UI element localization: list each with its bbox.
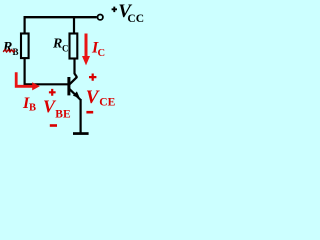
resistor R_B (21, 34, 29, 59)
emitter lead (69, 89, 81, 100)
label +VCC (112, 1, 144, 25)
ground bar (73, 132, 89, 135)
svg-text:R: R (52, 37, 62, 52)
minus sign of V_BE (50, 124, 57, 127)
plus sign of V_BE (49, 89, 56, 96)
wire top rail (24, 16, 97, 18)
svg-text:CC: CC (127, 13, 144, 25)
resistor R_C (70, 34, 78, 59)
wire R_C to collector (75, 59, 78, 78)
label V_BE (43, 97, 71, 121)
label V_CE (86, 87, 116, 109)
collector lead (69, 77, 77, 85)
terminal +Vcc (98, 15, 103, 20)
current arrow I_B (16, 72, 40, 90)
minus sign of V_CE (86, 111, 93, 114)
svg-text:C: C (98, 48, 106, 59)
base bar (67, 77, 70, 95)
emitter arrowhead (73, 91, 80, 98)
svg-text:CE: CE (99, 97, 115, 109)
svg-text:V: V (86, 87, 100, 108)
svg-text:R: R (2, 40, 12, 55)
wire R_B to base corner (25, 58, 68, 84)
current arrow I_C (82, 34, 90, 66)
plus sign of V_CE (89, 74, 96, 81)
squiggle (spellcheck underline under R_B) (3, 50, 15, 52)
wire rail to R_C (73, 16, 75, 34)
label I_B (22, 95, 36, 113)
label I_C (91, 40, 105, 59)
label R_C (52, 37, 69, 54)
transistor Q1 (67, 77, 80, 100)
wire emitter down (79, 99, 81, 133)
svg-text:C: C (62, 44, 69, 54)
label R_B (2, 40, 19, 57)
svg-text:BE: BE (55, 108, 71, 120)
svg-text:B: B (29, 102, 36, 113)
wire left vertical from rail to R_B (24, 16, 26, 33)
